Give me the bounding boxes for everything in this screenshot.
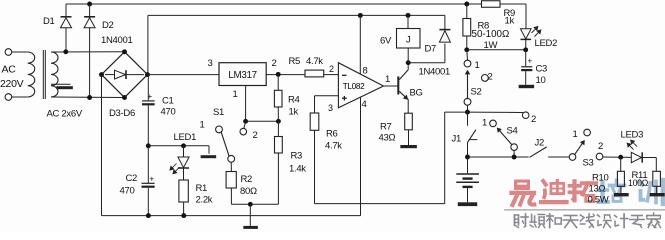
svg-text:6V: 6V: [380, 36, 392, 47]
svg-text:0.5W: 0.5W: [588, 195, 609, 206]
svg-text:2: 2: [253, 130, 258, 141]
svg-text:S3: S3: [583, 158, 594, 169]
svg-text:R10: R10: [592, 173, 609, 184]
svg-text:LM317: LM317: [228, 70, 256, 81]
svg-text:4.7k: 4.7k: [306, 56, 323, 67]
svg-text:C1: C1: [162, 96, 174, 107]
svg-text:AC: AC: [2, 64, 17, 76]
svg-text:+: +: [150, 175, 155, 184]
svg-text:2.2k: 2.2k: [196, 195, 213, 206]
svg-text:50-100Ω: 50-100Ω: [472, 29, 510, 40]
svg-text:1k: 1k: [505, 16, 515, 27]
svg-text:R2: R2: [241, 174, 253, 185]
svg-text:1: 1: [482, 118, 487, 129]
svg-text:3: 3: [328, 103, 333, 113]
svg-text:TL082: TL082: [343, 82, 365, 91]
svg-text:470: 470: [161, 107, 176, 118]
svg-text:LED1: LED1: [174, 132, 197, 143]
svg-text:R6: R6: [326, 129, 338, 140]
svg-text:D7: D7: [425, 44, 437, 55]
svg-text:C3: C3: [536, 64, 548, 75]
svg-text:D1: D1: [43, 16, 55, 27]
svg-text:4: 4: [362, 99, 367, 110]
svg-text:1: 1: [233, 89, 238, 100]
svg-text:R5: R5: [289, 56, 301, 67]
svg-text:100Ω: 100Ω: [628, 178, 649, 188]
svg-text:R1: R1: [196, 183, 208, 194]
svg-text:1N4001: 1N4001: [101, 35, 132, 46]
svg-text:1W: 1W: [484, 40, 498, 51]
svg-text:D3-D6: D3-D6: [109, 108, 135, 119]
svg-text:2: 2: [531, 114, 536, 125]
svg-text:8: 8: [363, 66, 368, 77]
svg-text:C2: C2: [126, 173, 138, 184]
svg-text:J1: J1: [452, 134, 461, 145]
svg-text:2: 2: [272, 58, 277, 69]
svg-text:2: 2: [598, 141, 603, 152]
svg-text:LED2: LED2: [535, 38, 558, 49]
svg-text:1N4001: 1N4001: [419, 67, 450, 78]
svg-text:470: 470: [120, 186, 135, 197]
svg-text:S1: S1: [213, 107, 224, 118]
svg-text:BG: BG: [410, 88, 423, 99]
svg-text:1: 1: [573, 129, 578, 140]
svg-text:13Ω: 13Ω: [589, 184, 606, 195]
svg-text:4.7k: 4.7k: [325, 141, 342, 152]
svg-text:43Ω: 43Ω: [379, 133, 396, 144]
svg-text:+: +: [148, 92, 153, 101]
svg-text:1: 1: [475, 60, 480, 71]
svg-text:R3: R3: [291, 151, 303, 162]
svg-text:R7: R7: [380, 122, 392, 133]
svg-text:1.4k: 1.4k: [289, 164, 306, 175]
svg-text:J2: J2: [535, 138, 544, 149]
svg-text:2: 2: [329, 64, 334, 74]
svg-text:80Ω: 80Ω: [240, 186, 257, 197]
svg-text:3: 3: [208, 58, 213, 69]
svg-text:+: +: [528, 57, 533, 66]
svg-text:1: 1: [200, 120, 205, 131]
svg-text:LED3: LED3: [621, 130, 644, 141]
svg-text:1: 1: [385, 74, 390, 85]
svg-text:10: 10: [536, 75, 546, 86]
svg-text:J: J: [406, 35, 411, 46]
svg-text:S4: S4: [507, 126, 518, 137]
svg-text:S2: S2: [471, 87, 482, 98]
svg-text:1k: 1k: [289, 107, 299, 118]
svg-text:R4: R4: [288, 95, 300, 106]
svg-text:D2: D2: [102, 20, 114, 31]
svg-text:AC 2x6V: AC 2x6V: [47, 109, 83, 120]
svg-text:220V: 220V: [0, 78, 24, 90]
